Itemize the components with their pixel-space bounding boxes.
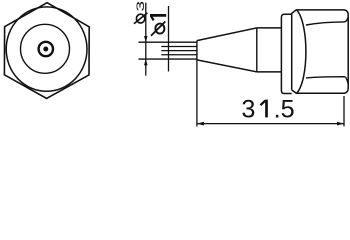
svg-text:3: 3 (134, 1, 146, 12)
svg-text:3: 3 (241, 95, 255, 123)
svg-text:.5: .5 (274, 95, 295, 123)
